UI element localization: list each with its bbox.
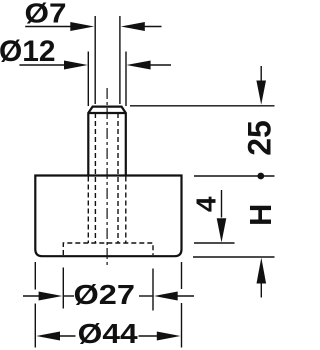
svg-text:Ø27: Ø27 [74, 279, 136, 310]
dim Ø7 arrowhead left [70, 22, 94, 31]
dim Ø7 extension line right [119, 16, 121, 104]
thread root hidden line right [117, 113, 119, 243]
dim Ø44 tail right [139, 335, 158, 337]
dim Ø12 extension line right [125, 52, 127, 107]
dim Ø7 line left [25, 26, 71, 28]
thread root hidden line left [94, 113, 96, 243]
dim Ø44 extension line right lower [181, 303, 183, 348]
svg-text:Ø44: Ø44 [78, 318, 138, 349]
dim Ø27 inner segment right [139, 295, 153, 297]
dim Ø12 line right [150, 64, 171, 66]
body outline [35, 176, 181, 257]
dim 25 junction dot [257, 173, 264, 180]
dim Ø27 extension line right [152, 269, 154, 311]
stem top extension line [130, 105, 275, 107]
dim Ø27 extension line left [62, 268, 64, 309]
dim Ø44 extension line right upper [181, 262, 183, 289]
dim 4 line [221, 190, 223, 218]
svg-text:Ø7: Ø7 [25, 0, 67, 28]
dim Ø44 arrowhead right [157, 332, 181, 341]
dim Ø12 arrowhead left [64, 61, 88, 70]
dim Ø12 arrowhead right [127, 61, 151, 70]
dim Ø12 line left [19, 64, 65, 66]
dim Ø12 extension line left [87, 52, 89, 107]
svg-text:4: 4 [191, 196, 222, 212]
dim Ø44 extension line left lower [34, 304, 36, 348]
svg-text:25: 25 [242, 120, 276, 156]
dim Ø44 extension line left upper [34, 262, 36, 290]
dim H bottom extension line [193, 256, 275, 258]
dim H arrowhead up [257, 258, 267, 284]
stem side hidden line right [125, 177, 127, 244]
dim 4 arrowhead down [217, 218, 227, 242]
dim Ø27 arrowhead right [154, 292, 178, 301]
svg-text:Ø12: Ø12 [0, 35, 56, 68]
dim Ø44 tail left [59, 335, 76, 337]
dim Ø27 line left [23, 295, 41, 297]
dim Ø7 line right [144, 26, 162, 28]
dim Ø44 arrowhead left [36, 332, 60, 341]
dim Ø27 inner segment left [64, 295, 74, 297]
dim Ø27 arrowhead left [39, 292, 63, 301]
dim Ø7 arrowhead right [121, 22, 145, 31]
dim Ø7 extension line left [94, 16, 96, 104]
body top extension line [194, 175, 275, 177]
dim 25 arrowhead down [256, 81, 266, 105]
stem outline [88, 107, 126, 176]
svg-text:H: H [243, 204, 275, 226]
stem chamfer base line [88, 112, 126, 114]
stem side hidden line left [87, 177, 89, 244]
dim Ø27 line right [176, 295, 194, 297]
recess hidden outline [63, 243, 153, 255]
center line [106, 88, 108, 265]
dim 25 tail [260, 66, 262, 81]
dim 4 extension line (recess) [194, 242, 235, 244]
dim H tail [260, 284, 262, 298]
